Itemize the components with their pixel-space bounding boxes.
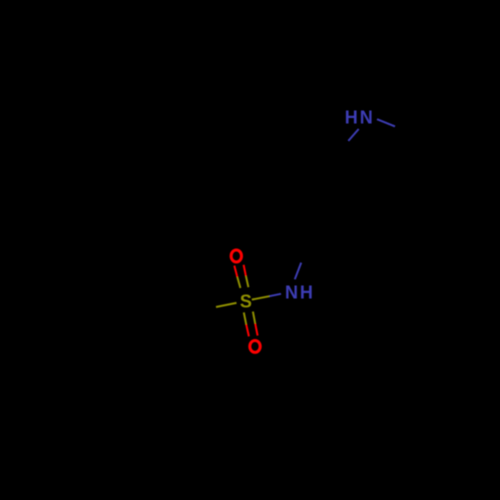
double bond S=O bottom, line 1 O half bbox=[246, 324, 249, 336]
bond S-C (left), S half bbox=[216, 303, 237, 307]
double bond S=O top, line 1 S half bbox=[237, 277, 240, 288]
svg-text:H: H bbox=[300, 282, 313, 302]
atom label O (bottom) bbox=[250, 340, 260, 352]
svg-text:H: H bbox=[345, 108, 358, 128]
double bond S=O top, line 2 S half bbox=[246, 276, 249, 287]
double bond S=O bottom, line 1 S half bbox=[244, 312, 246, 324]
bond S-N1, N half bbox=[270, 294, 282, 296]
double bond S=O top, line 2 O half bbox=[244, 265, 246, 276]
svg-text:N: N bbox=[285, 282, 298, 302]
double bond S=O top, line 1 O half bbox=[234, 266, 237, 277]
bond N1-CH (up-right), N half bbox=[295, 263, 301, 280]
svg-text:S: S bbox=[240, 292, 252, 312]
bond S-N1, S half bbox=[252, 296, 270, 299]
double bond S=O bottom, line 2 S half bbox=[253, 312, 255, 324]
bond N9-C (right), N half bbox=[377, 119, 395, 126]
atom label N1 (sulfonamide NH) bbox=[285, 282, 313, 302]
svg-text:N: N bbox=[360, 108, 373, 128]
atom label N9 (indole HN) bbox=[345, 108, 373, 128]
bond N9-C (lower-left), N half bbox=[348, 129, 358, 141]
double bond S=O bottom, line 2 O half bbox=[255, 324, 257, 336]
atom label O (top) bbox=[231, 250, 241, 262]
